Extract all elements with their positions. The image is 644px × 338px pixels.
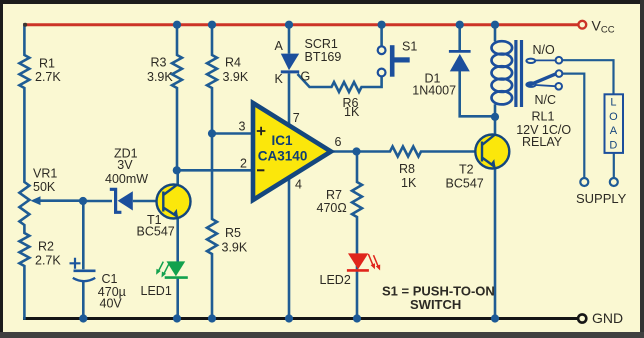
svg-text:1K: 1K — [344, 105, 360, 119]
svg-text:G: G — [301, 69, 311, 83]
svg-text:VR1: VR1 — [33, 167, 57, 181]
svg-text:A: A — [610, 125, 618, 137]
svg-text:RELAY: RELAY — [522, 135, 563, 149]
svg-text:3.9K: 3.9K — [147, 70, 173, 84]
svg-text:2: 2 — [240, 157, 247, 171]
svg-text:BC547: BC547 — [137, 224, 175, 238]
svg-text:L: L — [610, 97, 616, 109]
svg-text:S1: S1 — [402, 39, 417, 53]
svg-text:N/O: N/O — [533, 43, 556, 57]
svg-text:R2: R2 — [38, 240, 54, 254]
svg-text:3: 3 — [239, 120, 246, 134]
svg-text:SWITCH: SWITCH — [410, 297, 461, 312]
svg-text:6: 6 — [335, 135, 342, 149]
svg-text:400mW: 400mW — [105, 172, 148, 186]
svg-text:CA3140: CA3140 — [258, 148, 308, 163]
svg-text:K: K — [275, 72, 284, 86]
svg-text:R7: R7 — [326, 188, 342, 202]
svg-text:SUPPLY: SUPPLY — [576, 191, 627, 206]
svg-text:VCC: VCC — [592, 18, 615, 36]
svg-text:BT169: BT169 — [305, 50, 342, 64]
svg-text:RL1: RL1 — [532, 110, 555, 124]
svg-text:4: 4 — [295, 178, 302, 192]
svg-text:1N4007: 1N4007 — [412, 84, 456, 98]
svg-text:50K: 50K — [33, 180, 56, 194]
svg-text:R1: R1 — [39, 57, 55, 71]
svg-text:3V: 3V — [117, 158, 133, 172]
svg-text:D: D — [609, 139, 617, 151]
svg-text:N/C: N/C — [535, 93, 557, 107]
svg-text:3.9K: 3.9K — [222, 241, 248, 255]
svg-text:IC1: IC1 — [272, 133, 294, 148]
svg-text:R8: R8 — [399, 162, 415, 176]
svg-text:LED1: LED1 — [141, 284, 172, 298]
svg-text:BC547: BC547 — [446, 177, 484, 191]
svg-text:R4: R4 — [225, 56, 241, 70]
svg-text:1K: 1K — [401, 176, 417, 190]
svg-text:T2: T2 — [459, 163, 474, 177]
svg-text:R5: R5 — [225, 226, 241, 240]
svg-text:470Ω: 470Ω — [317, 201, 347, 215]
svg-text:7: 7 — [293, 111, 300, 125]
svg-text:40V: 40V — [100, 296, 123, 310]
svg-text:R3: R3 — [151, 56, 167, 70]
svg-text:LED2: LED2 — [320, 273, 351, 287]
svg-text:A: A — [275, 39, 284, 53]
svg-text:GND: GND — [592, 310, 623, 326]
svg-text:O: O — [609, 111, 618, 123]
svg-text:3.9K: 3.9K — [223, 70, 249, 84]
svg-text:2.7K: 2.7K — [35, 70, 61, 84]
svg-text:2.7K: 2.7K — [35, 254, 61, 268]
